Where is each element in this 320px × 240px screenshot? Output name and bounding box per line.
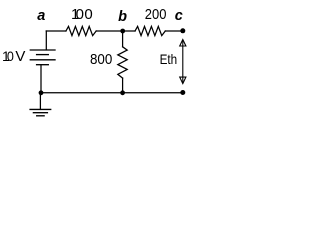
bottom right junction dot [180,90,185,95]
bottom left junction dot [39,90,44,95]
battery B1 long plate lower [30,59,55,61]
wire battery top stub [45,31,47,50]
Eth arrowhead down [180,77,186,84]
wire bottom rail [41,92,183,94]
node b junction dot [120,29,125,34]
wire top rail R200 to node c [165,30,183,32]
wire top rail R100 to R200 through node b [96,30,135,32]
wire battery bottom stem [40,65,42,93]
resistor R1 100 [66,26,96,35]
node c junction dot [180,28,185,33]
wire ground stem [39,93,41,110]
svg-text:00: 00 [76,6,94,23]
svg-text:b: b [118,9,127,25]
ground bar 1 [30,108,51,110]
Eth arrow shaft [182,41,184,83]
resistor R2 200 [135,26,165,35]
svg-text:Eth: Eth [160,51,178,67]
wire R800 lead to bottom rail [122,78,124,93]
wire node b lead down [122,31,124,47]
battery B1 long plate top [30,49,55,51]
svg-text:V: V [15,48,25,65]
resistor R3 800 [118,47,127,78]
ground bar 2 [33,112,47,114]
node b bottom junction dot [120,90,125,95]
battery B1 short plate bottom [37,64,49,66]
battery B1 short plate upper [37,54,49,56]
svg-text:a: a [37,8,45,24]
wire top rail left segment a to R100 [46,30,66,32]
svg-text:200: 200 [145,6,167,23]
svg-text:800: 800 [90,51,112,68]
Eth arrowhead up [180,40,186,47]
svg-text:c: c [175,8,183,24]
ground bar 3 [37,115,44,117]
svg-text:0: 0 [7,48,14,64]
